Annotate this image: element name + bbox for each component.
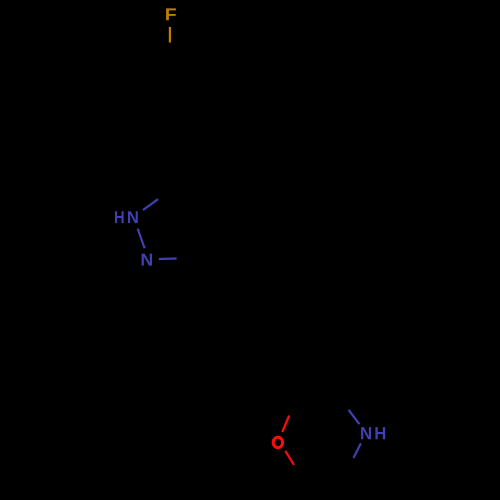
bond N4-C5 (blue half-bond down-left from NH) — [354, 443, 361, 458]
bond N1-C5 (blue half-bond up-right from HN) — [143, 199, 158, 210]
atom N1 (pyrazole HN label) — [115, 211, 138, 223]
bond N1-N2 (blue bond between the two pyrazole nitrogens) — [138, 229, 145, 249]
bond O-C2 (red half-bond up-right from O) — [282, 416, 289, 433]
bond O-C6 (red half-bond down-right from O) — [285, 451, 294, 465]
bond N2-C3 (blue half-bond to the right of N) — [159, 257, 177, 260]
atom N4 (morpholine NH label) — [361, 427, 385, 439]
atom N2 (pyrazole N label) — [142, 254, 152, 266]
bond F-C1 (gold half-bond below F) — [169, 27, 171, 43]
atom O (morpholine oxygen label) — [273, 437, 282, 448]
bond C3-N4 (blue half-bond down-right into NH) — [349, 410, 360, 424]
atom F (fluorine label) — [166, 8, 176, 20]
